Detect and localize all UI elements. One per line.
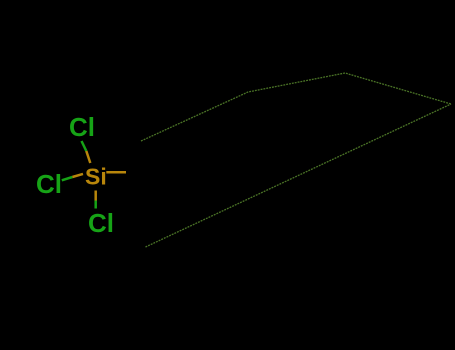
svg-text:Cl: Cl	[88, 208, 114, 238]
wire bond Si to top Cl (gold half)	[86, 151, 90, 163]
svg-text:Cl: Cl	[36, 169, 62, 199]
wire bond Si to top Cl (green half)	[82, 141, 87, 151]
wire bond left Cl to Si (gold half)	[72, 174, 83, 177]
wire bond left Cl to Si (green half)	[62, 177, 73, 180]
wire bond Si to bottom Cl (gold half)	[94, 191, 97, 201]
wire bond Si to carbon (right, gold)	[106, 171, 126, 174]
svg-text:Cl: Cl	[69, 112, 95, 142]
wire lower chain line	[146, 104, 452, 247]
svg-text:Si: Si	[85, 164, 107, 190]
wire bond Si to bottom Cl (green half)	[94, 201, 97, 209]
wire upper chain polyline	[141, 73, 451, 141]
